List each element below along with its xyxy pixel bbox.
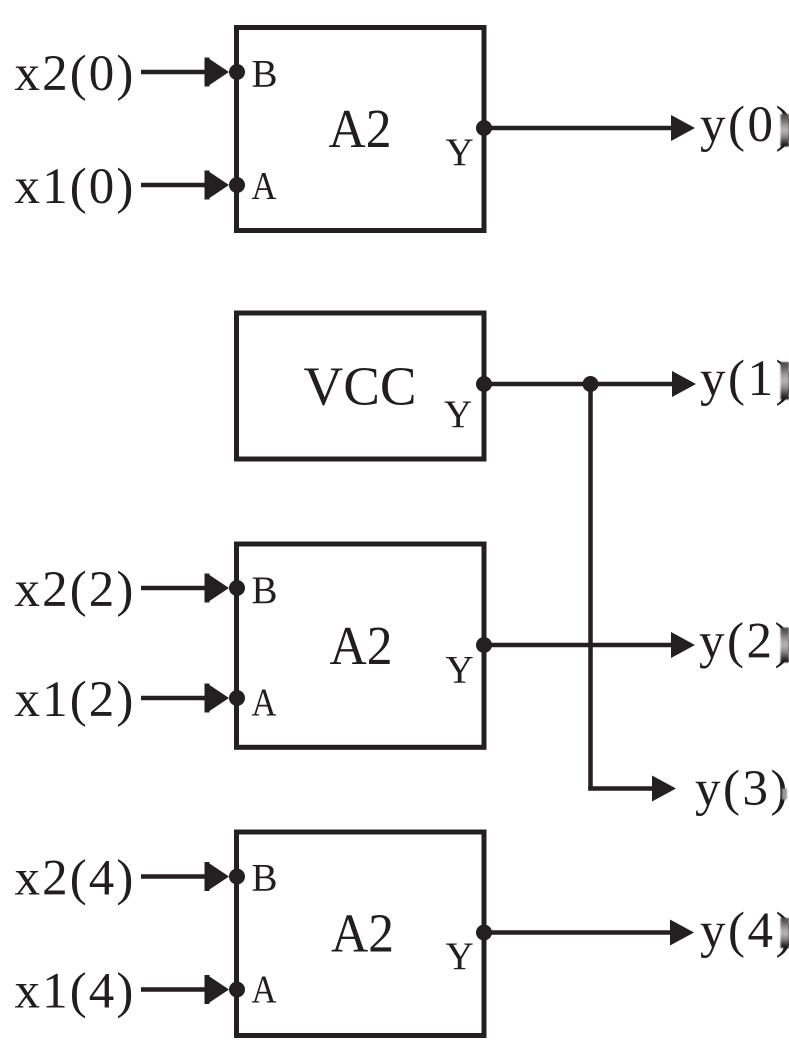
- arrowhead y(2): [671, 632, 695, 658]
- svg-text:B: B: [252, 569, 278, 612]
- wire U1.Y to y(0): [484, 126, 672, 131]
- arrowhead x1(2): [205, 684, 230, 713]
- junction node net Y1: [583, 376, 599, 392]
- wire y(3) horizontal from elbow: [588, 786, 652, 791]
- arrowhead y(4): [670, 920, 694, 946]
- block U1 A2 (bit 0) box: [237, 28, 485, 231]
- edge smudge y(4): [781, 918, 789, 948]
- svg-text:Y: Y: [444, 393, 472, 436]
- node U4.B pin dot: [229, 869, 245, 885]
- arrowhead x1(4): [205, 975, 230, 1004]
- wire U4.Y to y(4): [484, 930, 671, 935]
- svg-text:A2: A2: [331, 903, 394, 964]
- svg-text:x2(2): x2(2): [15, 562, 136, 618]
- node U3.B pin dot: [229, 580, 245, 596]
- node U2.Y pin dot: [476, 376, 492, 392]
- node U1.A pin dot: [229, 177, 245, 193]
- svg-text:y(4): y(4): [700, 903, 789, 959]
- svg-text:Y: Y: [446, 131, 474, 174]
- svg-text:x1(4): x1(4): [15, 964, 136, 1020]
- arrowhead y(0): [671, 115, 695, 141]
- wire x2(4) to U4.B: [141, 874, 207, 879]
- svg-text:x1(0): x1(0): [15, 159, 136, 215]
- svg-text:A2: A2: [330, 615, 393, 676]
- arrowhead x1(0): [205, 171, 230, 200]
- block U2 VCC box: [237, 313, 485, 459]
- svg-text:y(3): y(3): [695, 761, 789, 817]
- edge smudge y(2): [781, 628, 789, 663]
- node U4.A pin dot: [229, 982, 245, 998]
- svg-text:B: B: [252, 857, 278, 900]
- edge smudge y(0): [781, 114, 789, 147]
- edge smudge y(3): [782, 789, 787, 800]
- node U1.Y pin dot: [476, 120, 492, 136]
- wire U2.Y to y(1): [484, 382, 673, 387]
- arrowhead y(1): [672, 371, 696, 397]
- svg-text:x2(4): x2(4): [15, 851, 136, 907]
- wire U3.Y to y(2): [484, 643, 671, 648]
- node U1.B pin dot: [229, 64, 245, 80]
- edge smudge y(1): [781, 362, 789, 400]
- wire x1(0) to U1.A: [141, 183, 207, 188]
- block U4 A2 (bit 4) box: [237, 832, 485, 1036]
- arrowhead x2(0): [205, 58, 230, 87]
- node U3.A pin dot: [229, 690, 245, 706]
- svg-text:y(1): y(1): [700, 351, 789, 407]
- node U3.Y pin dot: [476, 637, 492, 653]
- block U3 A2 (bit 2) box: [237, 544, 485, 747]
- svg-text:A2: A2: [329, 98, 392, 159]
- svg-text:y(2): y(2): [699, 614, 789, 670]
- wire x2(2) to U3.B: [141, 586, 207, 591]
- svg-text:Y: Y: [446, 935, 474, 978]
- wire x1(4) to U4.A: [141, 987, 207, 992]
- svg-text:B: B: [252, 53, 278, 96]
- wire x2(0) to U1.B: [141, 70, 207, 75]
- svg-text:A: A: [252, 165, 277, 208]
- svg-text:y(0): y(0): [700, 97, 789, 153]
- wire vertical junction to y(3) elbow: [588, 384, 593, 791]
- svg-text:Y: Y: [446, 649, 474, 692]
- node U4.Y pin dot: [476, 925, 492, 941]
- svg-text:VCC: VCC: [304, 356, 417, 417]
- arrowhead x2(4): [205, 862, 230, 891]
- svg-text:A: A: [252, 681, 277, 724]
- wire x1(2) to U3.A: [141, 696, 207, 701]
- svg-text:x2(0): x2(0): [15, 46, 136, 102]
- svg-text:x1(2): x1(2): [15, 672, 136, 728]
- svg-text:A: A: [252, 968, 277, 1011]
- arrowhead x2(2): [205, 574, 230, 603]
- arrowhead y(3): [652, 776, 676, 802]
